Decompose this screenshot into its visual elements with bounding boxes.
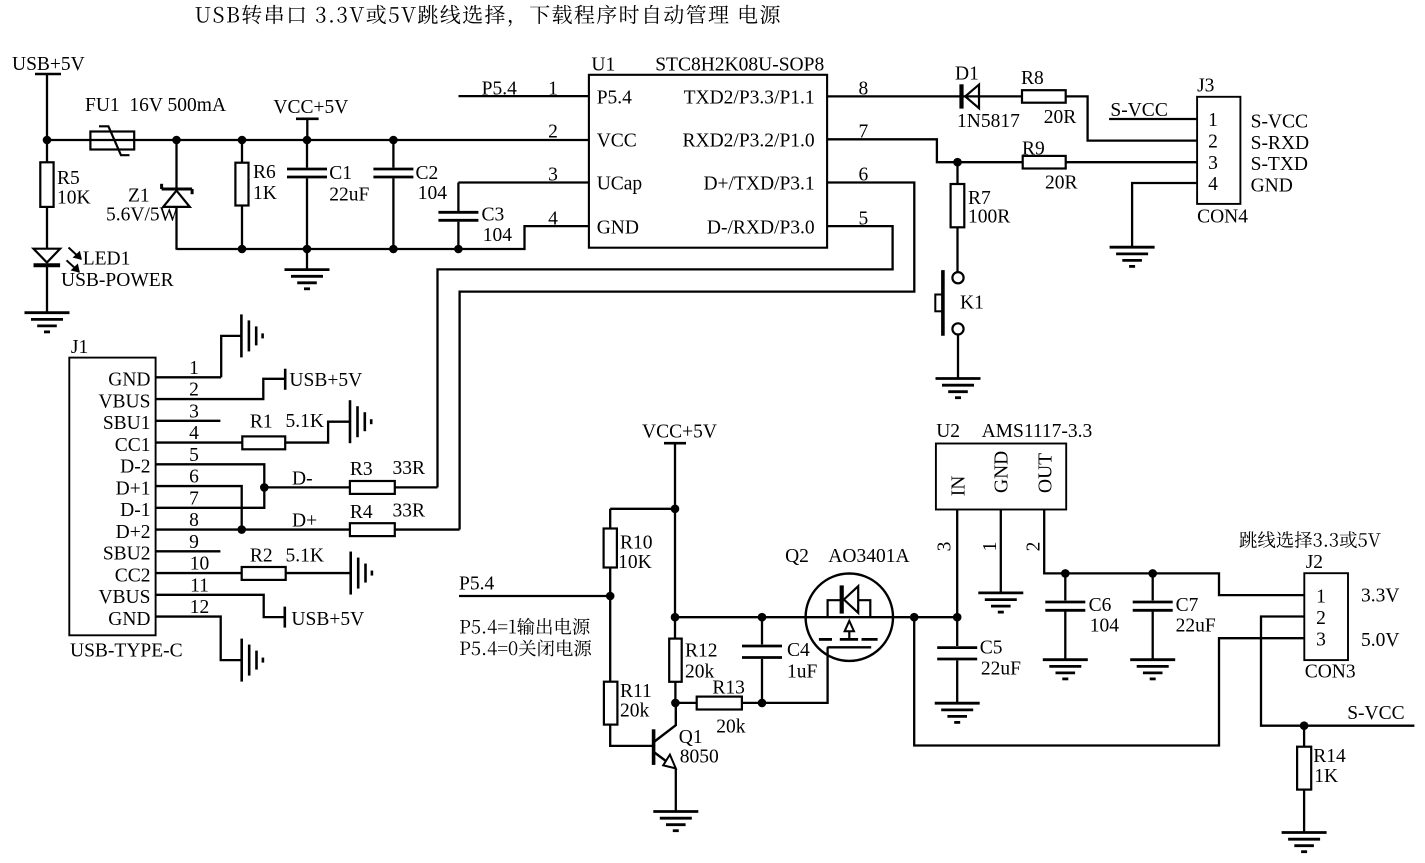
svg-text:5.6V/5W: 5.6V/5W — [106, 205, 179, 226]
svg-text:5.0V: 5.0V — [1361, 630, 1399, 651]
svg-text:5: 5 — [859, 208, 869, 229]
svg-text:20R: 20R — [1045, 173, 1078, 194]
svg-text:5.1K: 5.1K — [286, 546, 324, 567]
svg-text:Q1: Q1 — [679, 727, 703, 748]
svg-text:USB+5V: USB+5V — [291, 609, 364, 630]
svg-text:1N5817: 1N5817 — [957, 111, 1020, 132]
svg-text:9: 9 — [189, 532, 199, 553]
svg-text:104: 104 — [483, 225, 513, 246]
svg-text:FU1 16V 500mA: FU1 16V 500mA — [85, 95, 226, 116]
svg-text:20k: 20k — [685, 662, 715, 683]
svg-text:104: 104 — [1090, 616, 1120, 637]
svg-text:AMS1117-3.3: AMS1117-3.3 — [982, 421, 1093, 442]
svg-text:1: 1 — [1208, 110, 1218, 131]
svg-text:R6: R6 — [253, 162, 276, 183]
svg-text:11: 11 — [190, 575, 209, 596]
svg-text:22uF: 22uF — [329, 185, 369, 206]
svg-text:8: 8 — [859, 78, 869, 99]
svg-text:R8: R8 — [1021, 68, 1044, 89]
svg-text:C3: C3 — [482, 205, 505, 226]
svg-text:R9: R9 — [1022, 139, 1045, 160]
svg-text:D+1: D+1 — [116, 478, 151, 499]
svg-text:U1: U1 — [591, 55, 615, 76]
svg-text:22uF: 22uF — [1176, 616, 1216, 637]
svg-text:VBUS: VBUS — [98, 391, 150, 412]
svg-text:3.3V: 3.3V — [1361, 586, 1399, 607]
svg-text:20k: 20k — [716, 717, 746, 738]
svg-text:22uF: 22uF — [981, 659, 1021, 680]
svg-text:4: 4 — [548, 208, 558, 229]
svg-text:3: 3 — [189, 401, 199, 422]
svg-text:R14: R14 — [1313, 746, 1346, 767]
svg-text:C1: C1 — [329, 163, 352, 184]
svg-text:1K: 1K — [1314, 766, 1338, 787]
svg-text:R10: R10 — [620, 533, 653, 554]
svg-text:R3: R3 — [350, 459, 373, 480]
svg-text:33R: 33R — [393, 501, 426, 522]
svg-text:P5.4: P5.4 — [459, 574, 494, 595]
svg-text:12: 12 — [190, 597, 210, 618]
svg-text:VBUS: VBUS — [98, 587, 150, 608]
svg-text:R5: R5 — [57, 168, 80, 189]
svg-text:20R: 20R — [1044, 107, 1077, 128]
svg-text:GND: GND — [1251, 175, 1293, 196]
svg-text:2: 2 — [1024, 542, 1045, 552]
svg-text:SBU1: SBU1 — [103, 413, 151, 434]
svg-text:S-RXD: S-RXD — [1251, 133, 1310, 154]
svg-text:D1: D1 — [955, 64, 979, 85]
svg-text:10K: 10K — [57, 188, 91, 209]
svg-text:SBU2: SBU2 — [103, 544, 151, 565]
svg-text:VCC: VCC — [597, 131, 637, 152]
svg-text:104: 104 — [418, 183, 448, 204]
svg-text:GND: GND — [108, 609, 150, 630]
svg-text:USB-POWER: USB-POWER — [61, 270, 174, 291]
svg-text:3: 3 — [1208, 153, 1218, 174]
svg-text:R12: R12 — [685, 641, 718, 662]
svg-text:J2: J2 — [1306, 552, 1323, 573]
svg-text:USB+5V: USB+5V — [289, 370, 362, 391]
svg-text:R4: R4 — [350, 502, 373, 523]
svg-text:3: 3 — [935, 542, 956, 552]
svg-text:AO3401A: AO3401A — [828, 546, 909, 567]
svg-text:STC8H2K08U-SOP8: STC8H2K08U-SOP8 — [655, 55, 824, 76]
svg-text:OUT: OUT — [1035, 453, 1056, 493]
svg-text:CC2: CC2 — [115, 565, 151, 586]
svg-text:USB-TYPE-C: USB-TYPE-C — [70, 641, 183, 662]
svg-text:10K: 10K — [618, 552, 652, 573]
svg-text:8: 8 — [189, 510, 199, 531]
svg-text:VCC+5V: VCC+5V — [273, 97, 348, 118]
svg-text:TXD2/P3.3/P1.1: TXD2/P3.3/P1.1 — [684, 87, 815, 108]
svg-text:CON3: CON3 — [1305, 662, 1356, 683]
svg-text:20k: 20k — [620, 701, 650, 722]
svg-text:C7: C7 — [1176, 595, 1199, 616]
svg-text:2: 2 — [1316, 608, 1326, 629]
svg-text:1K: 1K — [253, 183, 277, 204]
svg-text:100R: 100R — [968, 207, 1010, 228]
svg-text:D+: D+ — [292, 511, 317, 532]
svg-text:S-VCC: S-VCC — [1347, 703, 1404, 724]
svg-text:S-VCC: S-VCC — [1110, 100, 1167, 121]
svg-text:1: 1 — [548, 78, 558, 99]
svg-text:3: 3 — [548, 165, 558, 186]
svg-text:USB+5V: USB+5V — [12, 54, 85, 75]
svg-text:7: 7 — [189, 488, 199, 509]
svg-text:U2: U2 — [936, 421, 960, 442]
svg-text:33R: 33R — [393, 458, 426, 479]
svg-text:D+/TXD/P3.1: D+/TXD/P3.1 — [703, 174, 814, 195]
svg-text:1: 1 — [189, 358, 199, 379]
svg-text:D-/RXD/P3.0: D-/RXD/P3.0 — [707, 217, 815, 238]
svg-text:S-TXD: S-TXD — [1251, 154, 1308, 175]
svg-text:GND: GND — [992, 451, 1013, 493]
svg-text:4: 4 — [189, 423, 199, 444]
svg-text:Q2: Q2 — [785, 546, 809, 567]
svg-text:GND: GND — [108, 370, 150, 391]
svg-text:R11: R11 — [620, 681, 652, 702]
svg-text:R13: R13 — [712, 677, 745, 698]
svg-text:C6: C6 — [1089, 595, 1112, 616]
svg-text:R1: R1 — [250, 412, 273, 433]
svg-text:C4: C4 — [787, 640, 810, 661]
svg-text:IN: IN — [949, 476, 970, 497]
svg-text:LED1: LED1 — [83, 249, 131, 270]
svg-text:CON4: CON4 — [1197, 207, 1248, 228]
svg-text:7: 7 — [859, 122, 869, 143]
svg-text:5.1K: 5.1K — [286, 411, 324, 432]
svg-text:VCC+5V: VCC+5V — [642, 422, 717, 443]
svg-text:D-1: D-1 — [120, 500, 150, 521]
svg-text:CC1: CC1 — [115, 435, 151, 456]
svg-text:J3: J3 — [1197, 76, 1214, 97]
svg-text:3: 3 — [1316, 630, 1326, 651]
svg-text:RXD2/P3.2/P1.0: RXD2/P3.2/P1.0 — [682, 131, 814, 152]
svg-text:1uF: 1uF — [787, 662, 818, 683]
svg-text:1: 1 — [1316, 586, 1326, 607]
svg-text:6: 6 — [189, 467, 199, 488]
svg-text:6: 6 — [859, 165, 869, 186]
svg-text:D-: D- — [292, 468, 313, 489]
svg-text:S-VCC: S-VCC — [1251, 111, 1308, 132]
svg-text:GND: GND — [597, 217, 639, 238]
svg-text:2: 2 — [548, 122, 558, 143]
svg-text:10: 10 — [190, 554, 210, 575]
svg-text:R2: R2 — [250, 546, 273, 567]
svg-text:D-2: D-2 — [120, 457, 150, 478]
svg-text:D+2: D+2 — [116, 522, 151, 543]
svg-text:8050: 8050 — [680, 747, 719, 768]
svg-text:Z1: Z1 — [128, 186, 150, 207]
svg-text:K1: K1 — [960, 293, 984, 314]
svg-text:2: 2 — [189, 380, 199, 401]
svg-text:4: 4 — [1208, 174, 1218, 195]
svg-text:2: 2 — [1208, 132, 1218, 153]
svg-text:J1: J1 — [71, 337, 88, 358]
svg-text:5: 5 — [189, 445, 199, 466]
svg-text:P5.4: P5.4 — [597, 87, 632, 108]
svg-text:C2: C2 — [416, 163, 439, 184]
svg-text:C5: C5 — [980, 638, 1003, 659]
svg-text:UCap: UCap — [597, 174, 643, 195]
svg-text:1: 1 — [980, 542, 1001, 552]
svg-text:P5.4: P5.4 — [482, 78, 517, 99]
